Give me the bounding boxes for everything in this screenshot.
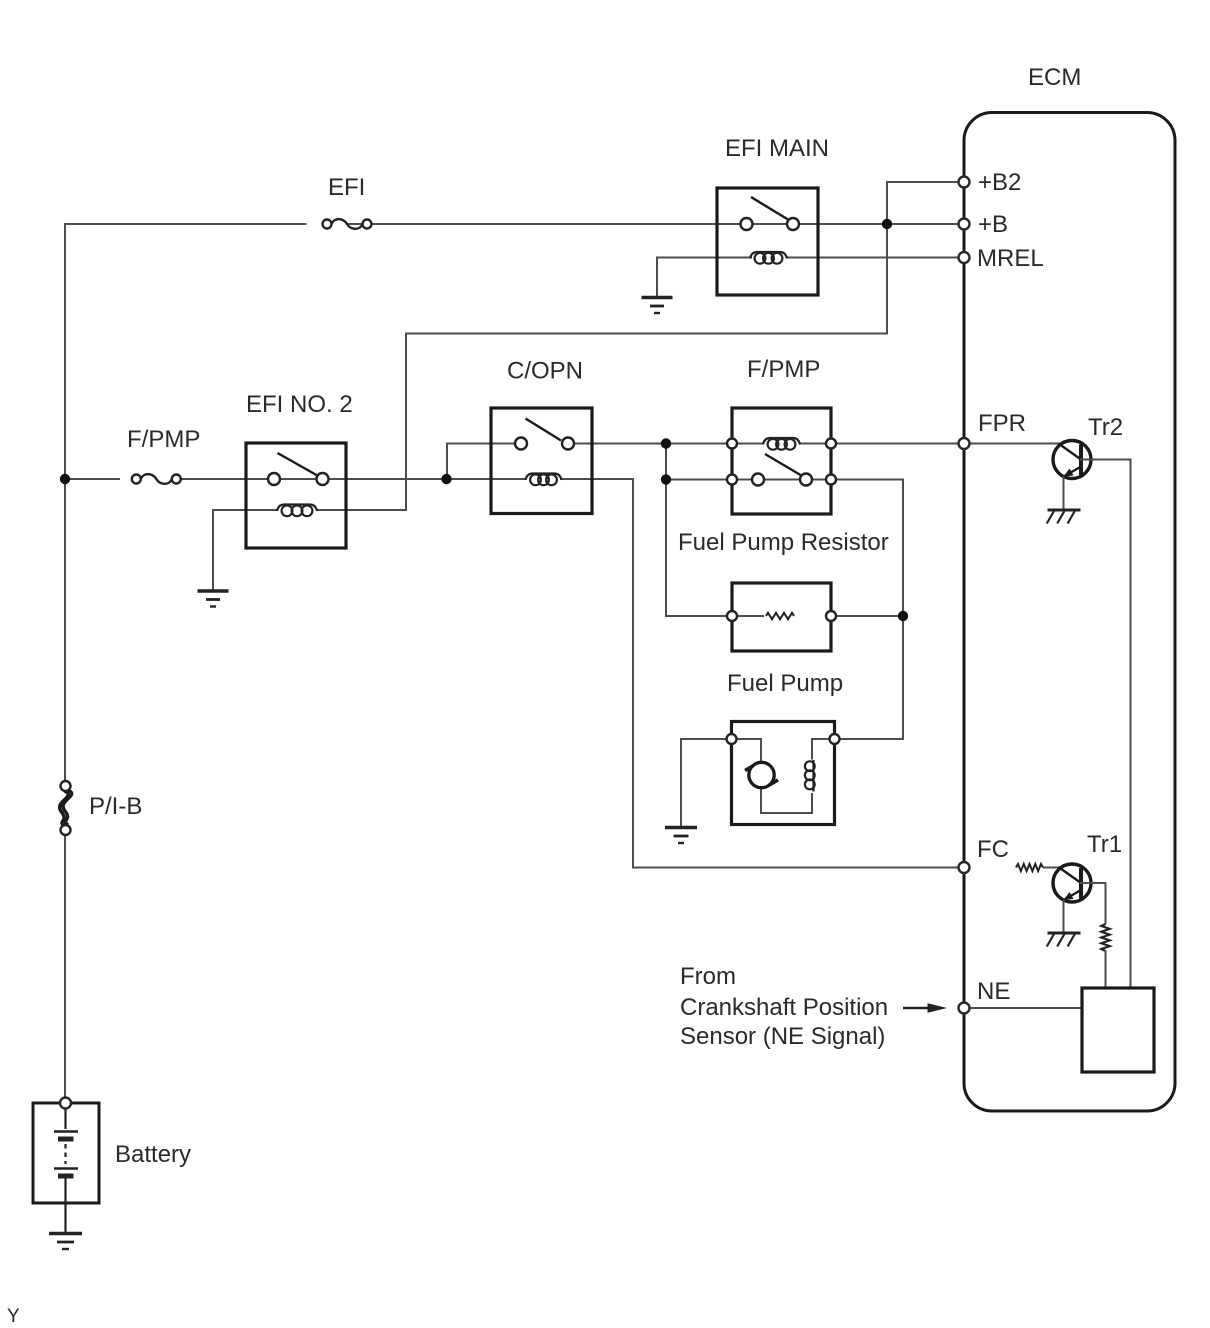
terminal +B [959, 219, 970, 230]
wire EFI MAIN coil to ground [657, 257, 752, 297]
svg-text:EFI MAIN: EFI MAIN [725, 135, 829, 162]
label Fuel Pump [727, 670, 843, 697]
label EFI NO. 2 [246, 391, 353, 418]
relay F/PMP box [732, 408, 831, 514]
wire F/PMP switch row [666, 479, 903, 481]
label NE [977, 978, 1010, 1005]
ground battery [49, 1234, 82, 1250]
fuse F/PMP [132, 474, 181, 484]
terminal +B2 [959, 177, 970, 188]
svg-text:Fuel Pump: Fuel Pump [727, 670, 843, 697]
label NE source [680, 963, 888, 1050]
svg-text:ECM: ECM [1028, 64, 1081, 91]
wire FC base [1043, 867, 1060, 869]
wire F/PMP fuse to EFI NO. 2 switch / C-OPN coil [180, 478, 527, 480]
relay F/PMP coil [763, 438, 800, 450]
relay EFI NO. 2 switch contacts [268, 473, 329, 485]
label +B [978, 211, 1008, 238]
svg-text:Tr2: Tr2 [1088, 414, 1123, 441]
label EFI fuse [328, 174, 365, 201]
svg-text:NE: NE [977, 978, 1010, 1005]
svg-text:+B: +B [978, 211, 1008, 238]
battery [33, 1103, 99, 1232]
ground EFI NO. 2 coil [198, 591, 229, 607]
transistor Tr1 [1053, 864, 1091, 902]
wire +B2 branch [887, 181, 963, 335]
svg-text:From: From [680, 963, 736, 990]
wire F/PMP switch to resistor junction [902, 479, 904, 618]
svg-text:FC: FC [977, 836, 1009, 863]
relay C/OPN coil [526, 474, 562, 486]
junction C/OPN switch tap [441, 474, 451, 484]
label +B2 [978, 169, 1021, 196]
terminal battery positive [60, 1098, 71, 1109]
relay EFI NO. 2 switch arm [278, 453, 321, 477]
NE signal block [1082, 988, 1154, 1072]
label EFI MAIN [725, 135, 829, 162]
svg-text:Y: Y [7, 1306, 20, 1327]
terminal FPR [959, 438, 970, 449]
svg-text:FPR: FPR [978, 410, 1026, 437]
wire Tr2 emitter [1063, 476, 1065, 510]
svg-text:C/OPN: C/OPN [507, 358, 583, 385]
fuse EFI [323, 219, 372, 229]
wire EFI NO. 2 coil to ground [213, 509, 278, 590]
wire fuel pump resistor input [666, 615, 764, 617]
svg-text:Crankshaft Position: Crankshaft Position [680, 994, 888, 1021]
relay C/OPN box [491, 408, 592, 514]
label P/I-B [89, 793, 142, 820]
resistor Fuel Pump Resistor pins [727, 611, 836, 621]
terminal NE [959, 1003, 970, 1014]
label MREL [977, 245, 1044, 272]
junction F/PMP switch row [661, 474, 671, 484]
ground fuel pump [665, 828, 697, 844]
relay F/PMP switch contacts [752, 474, 812, 486]
wire EFI fuse to EFI MAIN switch and +B [348, 223, 964, 225]
relay C/OPN switch arm [526, 419, 562, 441]
transistor Tr2 [1053, 441, 1091, 479]
wire Tr1 emitter [1063, 900, 1065, 934]
label ECM [1028, 64, 1081, 91]
junction F/PMP fuse tap [60, 474, 70, 484]
wire EFI fuse feed (top horizontal) [64, 223, 307, 225]
ground Tr2 [1047, 510, 1081, 524]
svg-text:Fuel Pump Resistor: Fuel Pump Resistor [678, 529, 889, 556]
relay EFI MAIN box [717, 188, 818, 295]
svg-text:Tr1: Tr1 [1087, 831, 1122, 858]
wire Tr1 collector [1080, 882, 1106, 924]
wire F/PMP fuse feed [64, 478, 120, 480]
resistor Fuel Pump Resistor element [766, 613, 794, 619]
ECM box [964, 113, 1175, 1112]
wire NE [964, 1007, 1082, 1009]
wire C/OPN switch to F-PMP coil [568, 443, 763, 445]
junction +B [882, 219, 892, 229]
label C/OPN [507, 358, 583, 385]
label FPR [978, 410, 1026, 437]
wire fuel pump to ground [681, 738, 732, 826]
fuel pump box [732, 722, 835, 825]
inductor fuel pump coil [805, 760, 815, 792]
relay EFI MAIN switch arm [751, 197, 788, 220]
wire Tr2 collector [1080, 459, 1131, 990]
terminal FC [959, 862, 970, 873]
relay F/PMP switch arm [765, 454, 801, 475]
fuel pump internal wiring [732, 738, 835, 814]
svg-text:F/PMP: F/PMP [127, 426, 200, 453]
relay F/PMP pins [727, 439, 836, 485]
svg-text:EFI NO. 2: EFI NO. 2 [246, 391, 353, 418]
NE input arrow [903, 1003, 947, 1013]
svg-text:MREL: MREL [977, 245, 1044, 272]
label Fuel Pump Resistor [678, 529, 889, 556]
resistor Tr1 collector [1101, 924, 1109, 951]
label F/PMP relay [747, 356, 820, 383]
label F/PMP fuse [127, 426, 200, 453]
resistor FC base [1016, 864, 1043, 871]
svg-text:EFI: EFI [328, 174, 365, 201]
label Tr1 [1087, 831, 1122, 858]
fuel pump pins [727, 734, 840, 744]
wire +B to EFI NO. 2 coil [316, 333, 888, 512]
wire fuel pump resistor output [831, 615, 904, 740]
wire C/OPN coil out to FC line [560, 478, 633, 868]
svg-text:+B2: +B2 [978, 169, 1021, 196]
wire battery positive rail (left vertical) [64, 223, 66, 1099]
wire Tr1 collector to NE block [1105, 950, 1107, 989]
wire MREL to EFI MAIN coil [786, 257, 963, 259]
motor fuel pump [745, 762, 778, 787]
relay EFI MAIN coil [750, 252, 787, 264]
connector P/I-B [60, 781, 72, 835]
relay EFI NO. 2 coil [277, 505, 317, 517]
label Tr2 [1088, 414, 1123, 441]
junction F/PMP coil row [661, 438, 671, 448]
wire C/OPN switch branch [447, 443, 521, 481]
svg-text:Battery: Battery [115, 1141, 191, 1168]
label Battery [115, 1141, 191, 1168]
wire F/PMP parallel branch (x=666) [665, 443, 732, 618]
ground Tr1 [1047, 933, 1081, 947]
wire FC [632, 867, 963, 869]
junction fuel pump resistor output [898, 611, 908, 621]
label Y footer [7, 1306, 20, 1327]
ground EFI MAIN coil [642, 298, 673, 314]
relay C/OPN switch contacts [515, 438, 574, 450]
svg-text:P/I-B: P/I-B [89, 793, 142, 820]
svg-text:Sensor (NE Signal): Sensor (NE Signal) [680, 1023, 885, 1050]
relay EFI NO. 2 box [246, 443, 346, 548]
relay EFI MAIN switch contacts [741, 218, 800, 230]
label FC [977, 836, 1009, 863]
wire FPR [799, 443, 1060, 445]
terminal MREL [959, 252, 970, 263]
resistor Fuel Pump Resistor box [732, 583, 831, 651]
svg-text:F/PMP: F/PMP [747, 356, 820, 383]
